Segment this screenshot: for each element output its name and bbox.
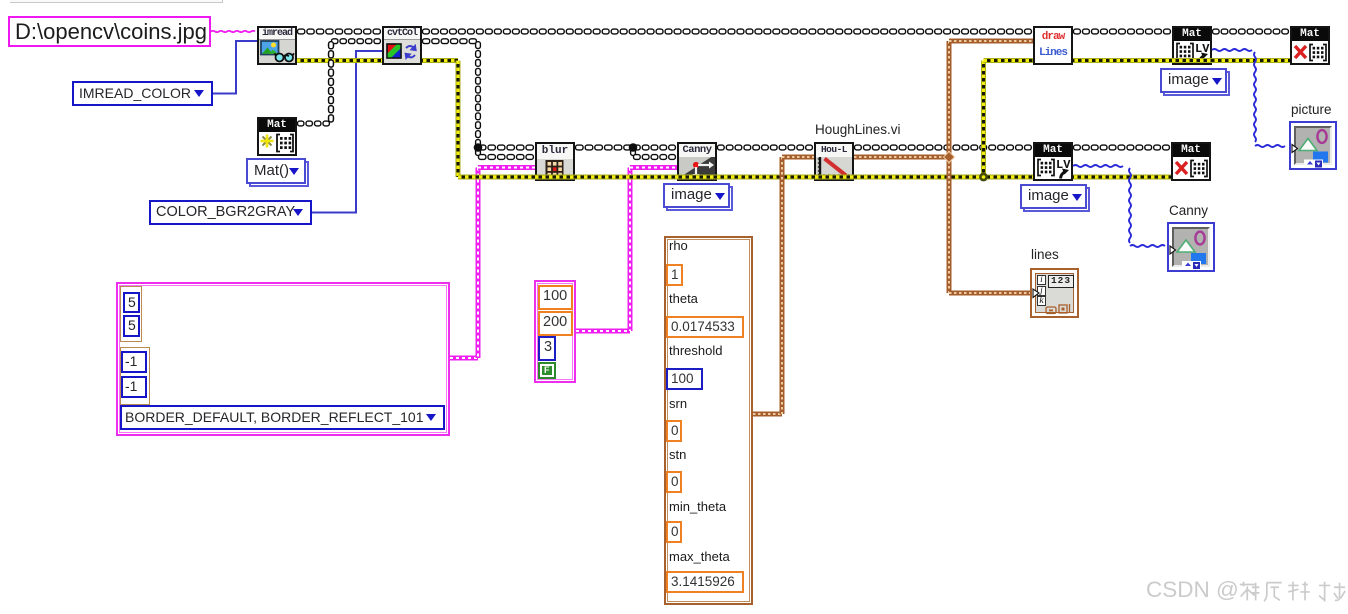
control cluster blur parameters	[116, 282, 450, 436]
control Mat() constructor dropdown	[249, 161, 309, 187]
wire to Canny src (Mat chain)	[634, 145, 676, 150]
label rho	[669, 238, 688, 253]
wire lines array trunk (array cluster wire vertical)	[947, 41, 952, 293]
numeric 1	[666, 264, 683, 286]
numeric 5	[123, 315, 140, 337]
numeric 200 (threshold2)	[538, 311, 573, 336]
label srn	[669, 396, 687, 411]
wire error imread to corner (error wire)	[297, 58, 458, 63]
wire to Canny dst (Mat chain)	[634, 155, 676, 160]
label stn	[669, 447, 686, 462]
wire gray Mat to blur dst (Mat chain)	[479, 155, 534, 160]
wire canny params riser (cluster wire vertical)	[628, 168, 633, 332]
wire path string to imread (wavy)	[211, 31, 255, 32]
cut-off toolbar remnant top-left	[10, 0, 223, 3]
wire blur params riser (cluster wire vertical)	[476, 168, 481, 359]
wire imread src to cvtCol (Mat chain)	[298, 29, 381, 34]
wire blur params from cluster (cluster wire)	[450, 356, 478, 361]
node Mat release (top)	[1290, 26, 1330, 65]
wire blur out (Mat chain)	[576, 145, 632, 150]
numeric 3.1415926	[666, 571, 744, 593]
wire Canny to HoughLines (Mat chain)	[718, 145, 813, 150]
wire Mat constructor out (Mat chain)	[298, 121, 330, 126]
wire HoughLines to Mat-toLV bottom (Mat chain)	[855, 145, 1032, 150]
node cvtCol (cvtColor)	[382, 26, 422, 65]
numeric 100	[666, 368, 703, 390]
wire error through blur/Canny/Hough (error wire)	[458, 175, 1033, 180]
numeric -1	[121, 376, 147, 398]
label HoughLines.vi	[815, 122, 901, 137]
wire canny params in (cluster wire)	[630, 165, 677, 170]
numeric 0.0174533	[666, 316, 744, 338]
control file path constant D:\opencv\coins.jpg	[8, 16, 211, 47]
node Mat constructor	[257, 117, 297, 156]
wire lines to indicator (array cluster wire)	[949, 291, 1030, 296]
cluster anchor (-1,-1)	[120, 347, 150, 405]
wire error across Mat-toLV top (error wire)	[1172, 58, 1212, 63]
wire COLOR_BGR2GRAY to cvtCol (enum wire)	[312, 51, 382, 213]
indicator picture (image display)	[1289, 121, 1337, 170]
numeric 0	[666, 471, 682, 493]
wire error under Mat-toLV bottom to release (error wire)	[1025, 175, 1171, 180]
numeric 100 (threshold1)	[538, 285, 573, 310]
label Canny	[1169, 203, 1208, 218]
wire hough params in (array cluster wire)	[782, 155, 814, 160]
control enum IMREAD_COLOR	[72, 81, 213, 106]
wire error drop left (error wire vertical)	[456, 61, 461, 178]
cluster ksize (5,5)	[120, 286, 142, 342]
label max_theta	[669, 549, 730, 564]
wire lines array out (array cluster wire)	[854, 155, 947, 160]
wire blur dst stub (Mat chain vertical)	[476, 148, 481, 155]
wire hough params riser (array cluster wire vertical)	[780, 157, 785, 414]
numeric 0	[666, 420, 682, 442]
numeric 5	[123, 292, 140, 313]
junction error wire	[979, 173, 988, 182]
wire error riser (error wire vertical)	[981, 61, 986, 178]
indicator lines (array of clusters)	[1030, 268, 1079, 318]
numeric 3 (aperture)	[538, 336, 556, 361]
node junction dot gray Mat split (blur)	[474, 143, 483, 152]
wire Mat-toLV top to Mat-release top (Mat chain)	[1213, 29, 1289, 34]
node HoughLines (Hou-L)	[814, 142, 854, 181]
wire hough params from cluster (array cluster wire)	[753, 412, 782, 417]
node blur	[535, 142, 575, 181]
wire blur params in (cluster wire)	[478, 165, 535, 170]
boolean F (L2gradient)	[538, 362, 556, 379]
wire gray Mat to blur src (Mat chain)	[479, 145, 534, 150]
wire canny dst stub (Mat chain vertical)	[631, 148, 636, 155]
node draw Lines	[1033, 26, 1073, 65]
node Mat release (bottom)	[1171, 142, 1211, 181]
wire lines to drawLines (array cluster wire)	[949, 39, 1033, 44]
node Canny	[677, 142, 717, 181]
wire canny params from cluster (cluster wire)	[576, 329, 630, 334]
numeric -1	[121, 351, 147, 373]
wire Mat constructor riser (Mat chain vertical)	[329, 42, 334, 122]
control enum BORDER_DEFAULT, BORDER_REFLECT_101	[120, 405, 445, 430]
wire Mat-toLV bottom to Canny indicator (image wavy)	[1073, 165, 1123, 167]
numeric 0	[666, 521, 682, 543]
control cluster Canny parameters	[534, 280, 576, 383]
label theta	[669, 291, 698, 306]
node Mat to LV image (top)	[1172, 26, 1212, 65]
control dropdown image (below Mat-toLV top)	[1163, 71, 1230, 96]
wire Mat constructor riser redraw (chain crosses error wire) (Mat chain vertical)	[329, 42, 334, 122]
label lines	[1031, 247, 1059, 262]
wire Mat constructor to cvtCol dst (Mat chain)	[332, 39, 381, 44]
control dropdown image (below Mat-toLV bottom)	[1023, 187, 1090, 212]
node junction dot gray Mat split (Canny)	[629, 143, 638, 152]
wire Mat-toLV top to picture (image wavy)	[1212, 49, 1252, 51]
indicator Canny indicator (image display)	[1167, 222, 1215, 272]
label picture	[1291, 102, 1332, 117]
junction lines array wire	[944, 152, 955, 163]
control dropdown image (below Canny)	[666, 186, 733, 211]
wire Mat-toLV bottom to Mat-release bottom (Mat chain)	[1074, 145, 1170, 150]
node imread	[257, 26, 297, 65]
wire cvtCol src out to drawLines (Mat chain)	[423, 29, 1032, 34]
wire cvtCol dst out (Mat chain)	[423, 39, 477, 44]
wire IMREAD_COLOR to imread (enum wire)	[213, 41, 257, 94]
control enum COLOR_BGR2GRAY	[149, 200, 312, 225]
wire drawLines to Mat-toLV top (Mat chain)	[1074, 29, 1171, 34]
watermark CSDN	[1146, 577, 1239, 603]
node Mat to LV image (bottom)	[1033, 142, 1073, 181]
wire gray Mat drop (Mat chain vertical)	[476, 42, 481, 147]
control cluster HoughLines parameters	[664, 236, 753, 605]
label min_theta	[669, 499, 726, 514]
label threshold	[669, 343, 722, 358]
wire error top branch (error wire)	[984, 58, 1291, 63]
